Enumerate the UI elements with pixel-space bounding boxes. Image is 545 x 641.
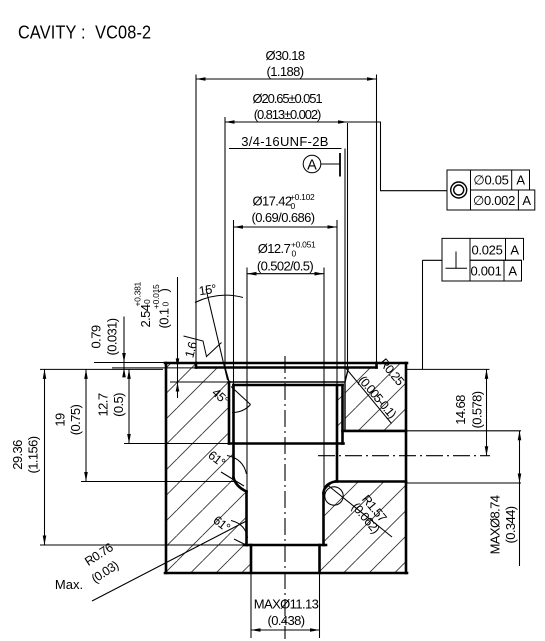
bore wall Ø11.13 left	[250, 545, 253, 573]
thread ext right	[344, 149, 346, 383]
step Ø12.7 to Ø11.13	[244, 544, 326, 547]
concentricity symbol circles	[451, 182, 467, 198]
left dims shared top ext line	[40, 368, 163, 370]
15 degree arc	[195, 295, 243, 302]
recess step right	[375, 363, 378, 368]
ext Ø17.42 left	[233, 220, 235, 385]
svg-text:(1.188): (1.188)	[267, 64, 304, 79]
ext line Ø20.65 left	[224, 117, 226, 368]
ext Ø12.7 left	[246, 268, 248, 492]
dim 19 vertical	[85, 369, 87, 481]
svg-text:14.68: 14.68	[453, 395, 468, 425]
dim 14.68 vertical	[486, 369, 488, 455]
svg-text:Max.: Max.	[55, 577, 83, 592]
svg-text:0.025: 0.025	[471, 243, 502, 258]
svg-text:(0.502/0.5): (0.502/0.5)	[257, 259, 314, 274]
dim 0.79 line	[123, 317, 125, 378]
svg-text:Ø30.18: Ø30.18	[265, 48, 304, 63]
vertical centerline	[284, 356, 286, 639]
datum A circle	[303, 155, 321, 173]
svg-text:(0.1: (0.1	[157, 308, 172, 328]
ext recess floor left	[112, 367, 196, 369]
taper left wall	[225, 368, 229, 383]
svg-text:A: A	[510, 243, 519, 258]
svg-text:(0.75): (0.75)	[68, 405, 83, 436]
svg-text:1.6: 1.6	[182, 340, 200, 359]
recess step left	[195, 363, 198, 368]
svg-text:0.79: 0.79	[89, 325, 104, 348]
arrows Ø20.65	[225, 120, 235, 124]
arrows 14.68	[485, 369, 489, 379]
45 degree arc	[232, 405, 251, 413]
svg-text:): )	[157, 289, 172, 293]
outer bottom edge	[165, 572, 407, 575]
svg-text:A: A	[516, 173, 525, 188]
svg-text:0: 0	[292, 249, 297, 259]
outer right edge	[405, 363, 408, 573]
svg-text:(0.5): (0.5)	[111, 393, 126, 417]
R1.57 circle	[325, 487, 343, 505]
svg-text:Ø20.65±0.051: Ø20.65±0.051	[252, 91, 322, 106]
svg-text:Ø12.7: Ø12.7	[258, 241, 291, 256]
side hole top edge	[343, 430, 407, 433]
hatched section: left block	[166, 363, 251, 573]
ext side hole bottom right	[407, 482, 521, 484]
thread minor wall left	[228, 382, 231, 444]
thread underline	[229, 148, 342, 150]
right dims: ext recess floor right	[407, 368, 490, 370]
arrows MAX11.13	[251, 628, 261, 632]
perpendicularity symbol	[446, 252, 468, 269]
leader R0.25	[345, 367, 392, 424]
side hole bottom edge	[336, 480, 407, 483]
bore wall Ø17.42 left	[232, 385, 235, 478]
dim Ø17.42 line	[234, 226, 338, 228]
dim Ø12.7 line	[247, 273, 324, 275]
thread counterbore floor	[234, 384, 343, 387]
dim 29.36 vertical	[44, 369, 46, 545]
svg-text:+0.015: +0.015	[151, 284, 161, 309]
61 degree lower leader	[234, 539, 248, 546]
ext 0.79 top face	[94, 362, 166, 364]
arrows Ø30.18	[196, 77, 206, 81]
dim 12.7 vertical	[128, 369, 130, 443]
arrows 0.79 outside	[122, 353, 126, 363]
ext 2.54 bottom	[170, 381, 229, 383]
dim MAX8.74 vertical	[519, 431, 521, 566]
ext 12.7 bottom	[124, 443, 229, 445]
concentricity frame boxes	[447, 170, 471, 210]
svg-text:19: 19	[53, 413, 68, 427]
outer left edge	[165, 363, 168, 573]
fillet R1.57 at side hole bottom corner	[324, 482, 336, 494]
svg-text:0: 0	[161, 302, 171, 307]
leader R1.57	[328, 485, 393, 537]
datum leader	[321, 163, 340, 165]
spotface recess floor	[196, 366, 377, 369]
thread major wall right	[344, 382, 346, 431]
bore wall Ø17.42 right	[336, 386, 339, 482]
svg-text:+0.381: +0.381	[133, 281, 143, 306]
ext 29.36 bottom	[40, 544, 243, 546]
bore wall Ø11.13 right	[318, 545, 321, 573]
ext MAX11.13 right	[319, 575, 321, 639]
ext line Ø30.18 left	[195, 75, 197, 364]
arrows 12.7 left	[127, 369, 131, 379]
svg-text:(0.813±0.002): (0.813±0.002)	[254, 107, 321, 122]
svg-text:A: A	[508, 264, 517, 279]
svg-text:∅0.05: ∅0.05	[473, 173, 508, 188]
arrows 29.36	[43, 369, 47, 379]
svg-text:29.36: 29.36	[10, 440, 25, 470]
dim MAX11.13 line	[251, 629, 320, 631]
ext side hole top right	[407, 430, 521, 432]
dim Ø30.18 line	[196, 78, 377, 80]
61 degree upper arc	[227, 456, 247, 475]
arrows 2.54 outside	[176, 358, 180, 368]
svg-text:0.001: 0.001	[470, 264, 501, 279]
ext 19 bottom	[81, 481, 235, 483]
svg-text:(0.031): (0.031)	[105, 318, 120, 355]
svg-text:(0.344): (0.344)	[503, 506, 518, 543]
arrows 19	[84, 369, 88, 379]
svg-text:∅0.002: ∅0.002	[473, 193, 515, 208]
ext Ø12.7 right	[323, 268, 325, 494]
svg-text:A: A	[307, 158, 317, 174]
surface finish 1.6 symbol	[184, 336, 222, 357]
61 degree lower arc	[231, 521, 248, 539]
datum A end bar	[339, 153, 341, 177]
thread crest top line	[229, 381, 345, 383]
ext Ø17.42 right	[336, 220, 338, 386]
svg-text:(0.69/0.686): (0.69/0.686)	[252, 210, 315, 225]
61 degree upper leader	[221, 472, 244, 486]
15 degree leg line	[206, 289, 228, 380]
svg-text:3/4-16UNF-2B: 3/4-16UNF-2B	[241, 134, 328, 149]
svg-text:A: A	[522, 193, 531, 208]
svg-text:MAXØ8.74: MAXØ8.74	[488, 495, 503, 554]
ext line Ø20.65 right	[347, 123, 349, 368]
svg-text:CAVITY : VC08-2: CAVITY : VC08-2	[18, 22, 151, 43]
hatched sliver right of thread	[337, 386, 343, 444]
taper 15 degree entry (medium)	[225, 368, 349, 431]
arrows Ø17.42	[234, 225, 244, 229]
bore transition left 61deg	[234, 478, 247, 492]
bore wall Ø12.7 right	[322, 493, 325, 545]
arrows MAX8.74	[518, 431, 522, 441]
dim 2.54 line	[177, 277, 179, 398]
thread minor wall right	[341, 385, 344, 444]
svg-text:15°: 15°	[198, 282, 217, 298]
ext line Ø30.18 right	[376, 75, 378, 364]
hatched section: right upper block	[345, 363, 406, 431]
svg-text:MAXØ11.13: MAXØ11.13	[254, 597, 319, 612]
svg-text:(0.438): (0.438)	[268, 613, 305, 628]
leader R0.76	[92, 522, 246, 602]
side hole centerline	[318, 455, 490, 457]
svg-text:Ø17.42: Ø17.42	[252, 194, 291, 209]
taper right wall	[345, 368, 349, 383]
top face edge	[165, 362, 407, 365]
thread full depth line	[229, 442, 344, 445]
dim 2.54	[133, 281, 154, 327]
svg-text:12.7: 12.7	[96, 393, 111, 416]
arrows Ø12.7	[247, 272, 257, 276]
perp frame leader	[423, 260, 443, 369]
45 degree chamfer line	[231, 387, 251, 405]
svg-text:(0.578): (0.578)	[470, 391, 485, 428]
svg-text:(1.156): (1.156)	[26, 436, 41, 473]
bore wall Ø12.7 left	[245, 492, 248, 546]
hatched section: right lower block	[320, 482, 407, 574]
ext MAX11.13 left	[250, 575, 252, 639]
dim Ø20.65 line with elbow to frame	[225, 122, 447, 191]
perpendicularity frame boxes	[442, 238, 470, 281]
